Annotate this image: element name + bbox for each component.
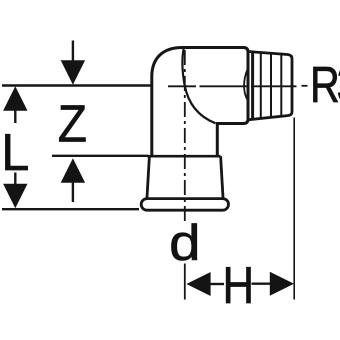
thread crest line 3 [280,54,282,117]
svg-text:H: H [223,258,255,315]
socket right wall [221,156,224,199]
arrow H left [186,272,224,296]
thread root left edge [251,52,254,120]
extension line right (thread end) [293,118,295,300]
press bead capsule [141,199,228,211]
arrow Z top (down) [61,41,85,85]
centerline horizontal (outlet axis) [168,85,308,88]
dimension line L bottom (socket end) [2,208,139,210]
svg-text:d: d [169,216,200,271]
body right face arc [244,69,248,100]
arrow H right [252,272,295,296]
thread crest line 1 [260,52,262,118]
centerline vertical (socket axis) [184,50,186,222]
male thread outline (tapered) [248,52,292,120]
arrow L bottom (down) [3,173,27,209]
dimension line top (L/Z reference at outlet axis) [2,84,152,86]
arrow Z bottom (up) [61,158,85,202]
extension line below d to H [184,264,186,300]
socket step line [147,155,220,158]
dimension line Z bottom (insertion depth) [52,155,148,157]
svg-text:Z: Z [58,95,87,153]
svg-text:R3: R3 [310,56,340,113]
thread crest line 2 [270,53,272,118]
svg-text:L: L [1,124,29,182]
socket left wall [147,156,150,199]
arrow L top (up) [3,86,27,123]
elbow body outline [152,48,248,157]
cylinder intersection curve [182,49,215,123]
